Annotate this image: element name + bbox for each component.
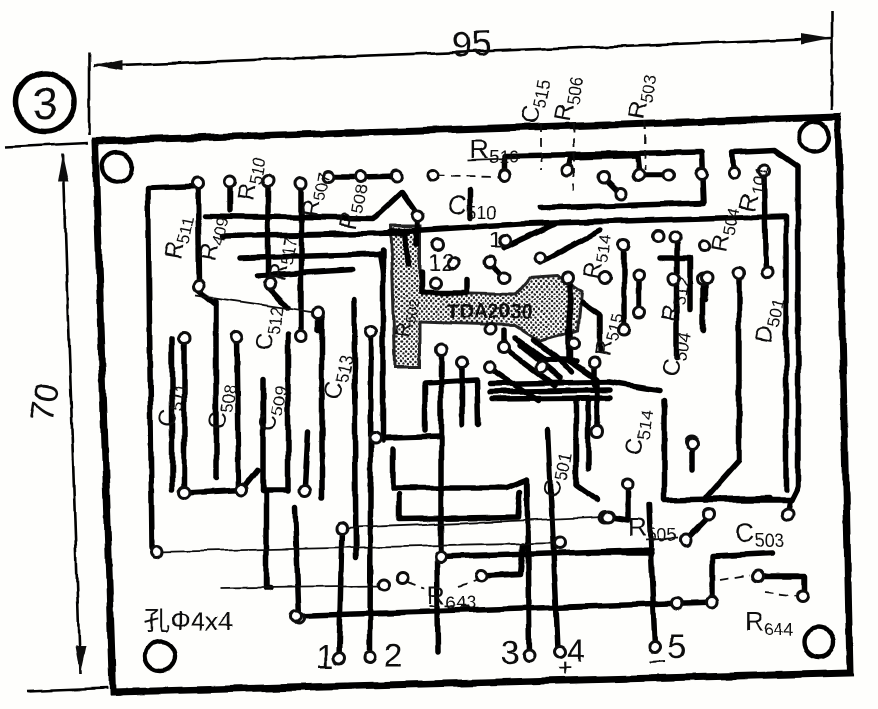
svg-text:5: 5: [668, 628, 686, 665]
svg-text:孔Φ4x4: 孔Φ4x4: [144, 606, 233, 636]
svg-text:95: 95: [451, 22, 492, 64]
svg-text:70: 70: [23, 380, 67, 424]
svg-text:TDA2030: TDA2030: [447, 301, 533, 323]
svg-text:3: 3: [501, 634, 519, 671]
svg-text:2: 2: [384, 637, 402, 674]
svg-text:1: 1: [316, 638, 334, 675]
svg-text:1: 1: [489, 227, 502, 254]
svg-text:3: 3: [33, 79, 57, 128]
svg-text:12: 12: [428, 249, 455, 276]
svg-text:+: +: [558, 655, 572, 682]
